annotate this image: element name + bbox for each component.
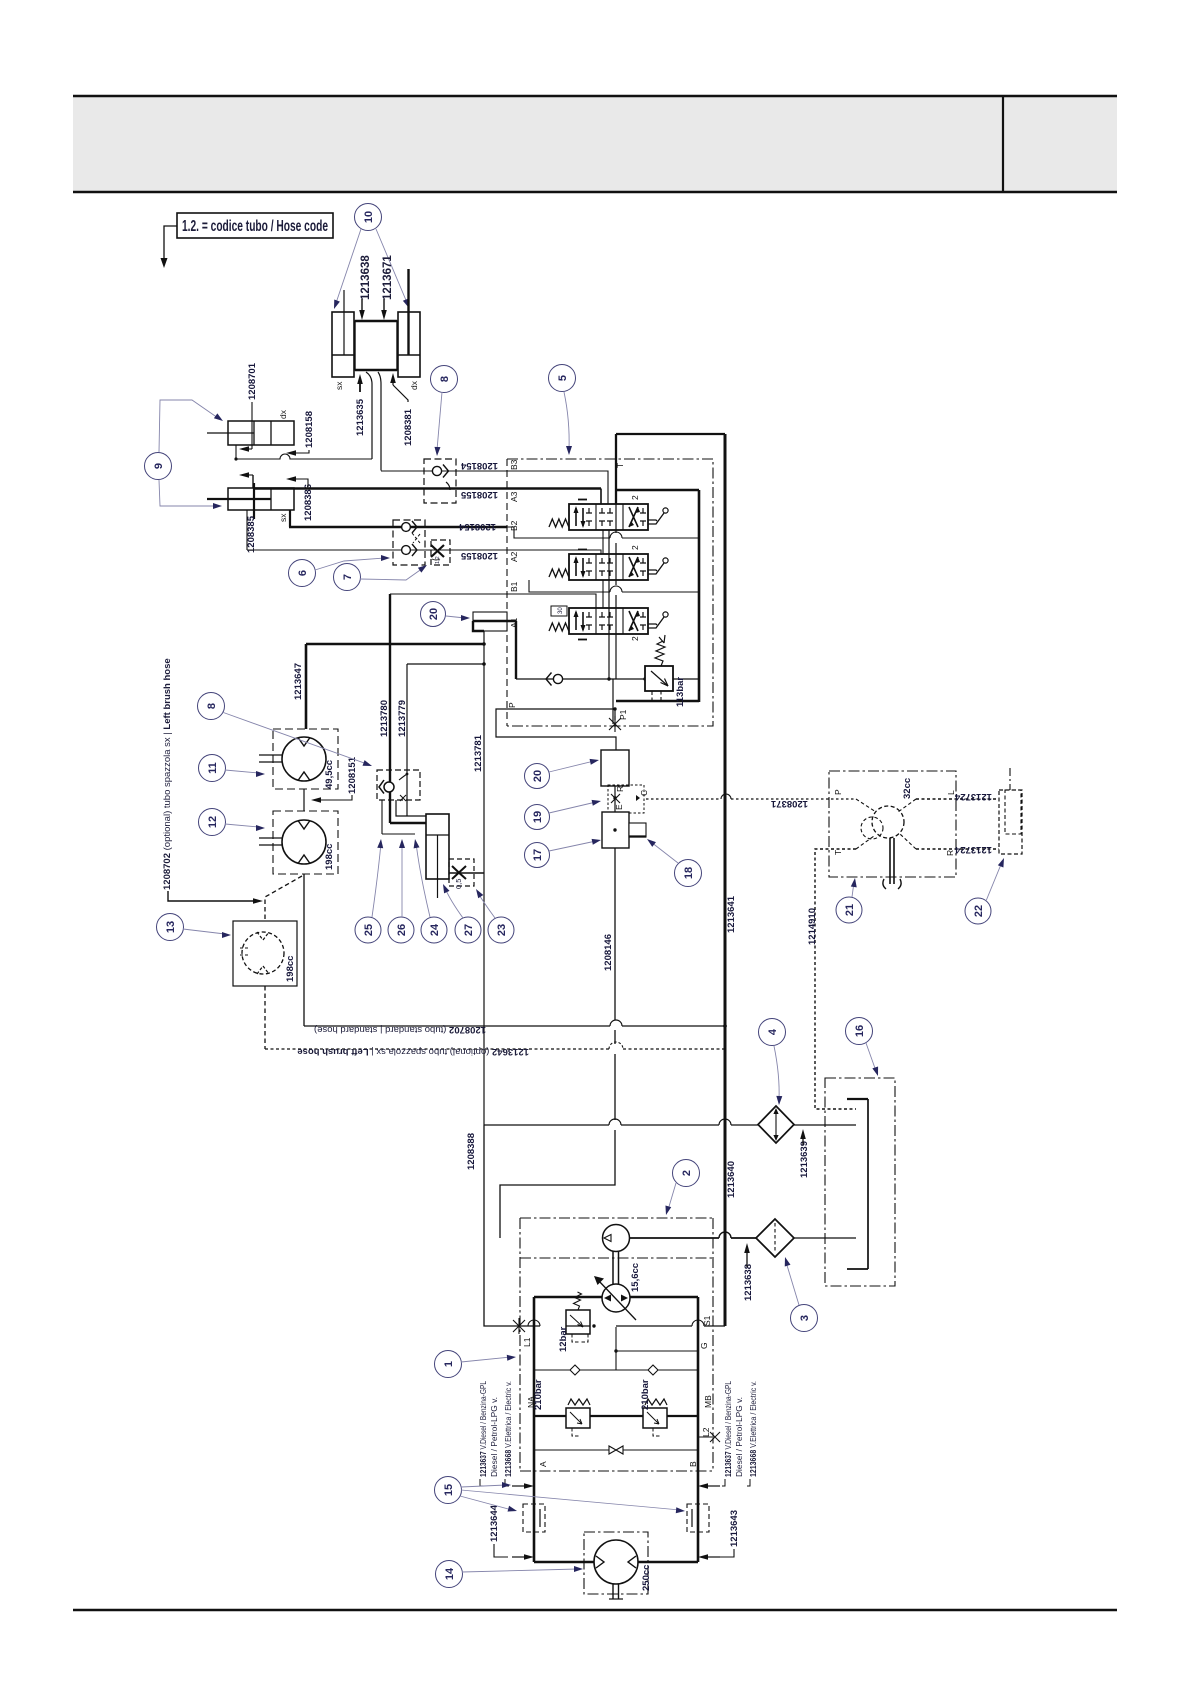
balloon 8	[431, 366, 458, 393]
relief valve RV1 113bar	[645, 635, 673, 701]
label L2 and star	[698, 1427, 720, 1442]
balloon 27	[455, 917, 481, 943]
leader 1208151	[311, 795, 352, 803]
wire hose B3 from manifold	[366, 372, 372, 459]
labels 1213637 1213668 right	[722, 1381, 758, 1486]
optional hose dotted y1049	[265, 1042, 725, 1049]
header band	[73, 96, 1117, 192]
leader balloon1	[461, 1354, 516, 1362]
svg-text:B3: B3	[509, 459, 519, 470]
relief 210bar right	[643, 1399, 667, 1436]
bottom rule	[73, 1609, 1117, 1612]
svg-text:12bar: 12bar	[558, 1326, 569, 1352]
orifice O7	[431, 540, 450, 565]
svg-text:1213637 V.Diesel / Benzina-GPL: 1213637 V.Diesel / Benzina-GPL	[479, 1381, 488, 1477]
L1 star mark	[513, 1318, 525, 1334]
brush manifold block 27	[382, 800, 449, 898]
wire 1213760 thick vertical	[390, 594, 426, 823]
leader balloon9 lower	[159, 480, 222, 509]
svg-text:32cc: 32cc	[902, 778, 913, 799]
suction line y1238	[630, 1232, 856, 1238]
balloon 9	[145, 453, 172, 480]
label C solenoid	[636, 790, 649, 801]
leader balloon26	[399, 839, 405, 917]
balloon 21	[836, 897, 862, 923]
solenoid assembly top box	[601, 750, 629, 812]
svg-text:B1: B1	[509, 581, 519, 592]
balloon 23	[488, 917, 514, 943]
inter-valve wire 1	[507, 527, 699, 538]
leader balloon23	[473, 887, 495, 918]
svg-text:1213638: 1213638	[743, 1264, 754, 1301]
svg-text:L1: L1	[522, 1337, 532, 1347]
wire left cylinders to valve y459	[234, 445, 372, 461]
balloon 14	[436, 1561, 463, 1588]
svg-text:2: 2	[630, 545, 640, 550]
cylinder sx (left pair lower)	[207, 483, 294, 519]
leader balloon4	[774, 1046, 782, 1105]
motor 21 boundary	[829, 771, 956, 877]
label 1213638 arrow	[359, 299, 365, 320]
cylinder sx (3rd brush lift, top left)	[332, 290, 354, 377]
leader balloon3	[782, 1256, 799, 1305]
svg-text:19: 19	[532, 811, 544, 823]
manifold between top cylinders	[355, 321, 397, 370]
svg-text:17: 17	[532, 849, 544, 861]
svg-text:1208155: 1208155	[460, 550, 498, 561]
svg-text:15,6cc: 15,6cc	[630, 1263, 641, 1292]
svg-text:1208702 (tubo standard | stand: 1208702 (tubo standard | standard hose)	[314, 1024, 486, 1035]
balloon 2	[673, 1160, 700, 1187]
leader balloon24	[412, 838, 430, 917]
leader balloon15 b	[460, 1496, 518, 1514]
P trunk	[609, 530, 613, 724]
svg-text:1213724: 1213724	[954, 844, 992, 855]
svg-text:1213781: 1213781	[473, 734, 484, 772]
leader 1208386	[286, 476, 308, 487]
leader balloon2	[663, 1183, 676, 1216]
pump B port arrows	[698, 1483, 720, 1560]
check valve CV8b (brush)	[377, 770, 420, 801]
filter 4	[758, 1106, 794, 1143]
leader 1213639	[800, 1129, 806, 1145]
pump shaft	[613, 1252, 619, 1286]
leader balloon10 to dx cylinder	[376, 229, 412, 309]
svg-text:1.2. = codice tubo / Hose code: 1.2. = codice tubo / Hose code	[182, 218, 328, 235]
valve V3 (section 3)	[549, 608, 668, 634]
svg-text:1208154: 1208154	[460, 460, 498, 471]
balloon 12	[199, 809, 226, 836]
hose code legend box	[177, 213, 333, 238]
leader balloon11	[225, 770, 265, 777]
svg-text:20: 20	[532, 770, 544, 782]
balloon 11	[199, 755, 226, 782]
balloon 17	[525, 843, 550, 868]
balloon 5	[549, 365, 576, 392]
leader balloon15 c long	[461, 1490, 685, 1514]
svg-text:25: 25	[363, 924, 375, 936]
LS drain to cooler line y1125	[484, 1119, 856, 1125]
svg-text:1213638: 1213638	[360, 255, 372, 300]
cylinder dx (left pair upper)	[207, 421, 294, 445]
check valve in block	[546, 673, 563, 686]
svg-text:dx: dx	[409, 380, 419, 390]
svg-text:1213780: 1213780	[379, 700, 390, 737]
svg-text:L2: L2	[701, 1427, 711, 1437]
leader balloon20b	[549, 757, 600, 772]
leader balloon27	[440, 883, 463, 918]
svg-text:1208702 (optional) tubo spazzo: 1208702 (optional) tubo spazzola sx | Le…	[162, 658, 173, 890]
wire A2 thin	[247, 510, 507, 550]
optional hose below M13	[264, 986, 266, 1049]
svg-text:A2: A2	[509, 551, 519, 562]
label 1213635 arrow	[357, 374, 363, 392]
wire A2 into V2	[507, 550, 601, 554]
dotted return line motor21	[815, 849, 856, 1109]
svg-text:Diesel / Petrol-LPG v.: Diesel / Petrol-LPG v.	[490, 1397, 499, 1477]
svg-text:113bar: 113bar	[675, 677, 686, 707]
labels 1213637 1213668 left	[479, 1381, 513, 1486]
balloon 20a	[421, 602, 446, 627]
leader 1208701	[239, 402, 252, 452]
svg-text:10: 10	[363, 211, 375, 223]
charge pump circle	[603, 1225, 630, 1252]
dotted lines motor21 to connector22	[916, 799, 999, 849]
svg-text:L: L	[946, 790, 956, 795]
svg-text:7: 7	[342, 574, 354, 580]
label 1213671 arrow	[381, 299, 387, 320]
leader balloon7 to orifice	[360, 563, 429, 580]
balloon 7	[334, 564, 361, 591]
svg-text:198cc: 198cc	[324, 844, 335, 870]
tank symbol	[847, 1099, 868, 1269]
svg-text:T: T	[833, 850, 843, 855]
svg-text:1208381: 1208381	[403, 408, 414, 446]
svg-text:2: 2	[630, 636, 640, 641]
A1 component box (balloon 20a)	[473, 612, 507, 631]
svg-text:1208388: 1208388	[466, 1133, 477, 1170]
svg-text:dx: dx	[278, 409, 288, 419]
leader balloon13	[183, 929, 231, 938]
motor 21 ports labels	[833, 789, 956, 856]
wire 1213779 vertical	[407, 662, 486, 816]
wire hose A3 from manifold	[378, 372, 381, 471]
solenoid side box 18	[629, 823, 646, 837]
balloon 16	[846, 1018, 873, 1045]
svg-text:B: B	[688, 1461, 698, 1467]
optional motor M13 box	[233, 921, 297, 986]
svg-text:P: P	[507, 702, 517, 708]
filter 3	[756, 1219, 794, 1257]
svg-text:Diesel / Petrol-LPG v.: Diesel / Petrol-LPG v.	[735, 1397, 744, 1477]
svg-text:1213642 (optional) tubo spazzo: 1213642 (optional) tubo spazzola sx | Le…	[297, 1046, 529, 1057]
svg-text:1213668 V.Elettrica / Electric: 1213668 V.Elettrica / Electric v.	[504, 1381, 513, 1477]
valve V2 (section 2)	[549, 554, 668, 580]
svg-text:2: 2	[630, 495, 640, 500]
leader balloon21	[851, 878, 858, 897]
svg-text:9: 9	[153, 463, 165, 469]
flange 15 left	[523, 1504, 545, 1532]
svg-text:A3: A3	[509, 491, 519, 502]
balloon 20b	[525, 764, 550, 789]
svg-text:1214910: 1214910	[807, 908, 818, 945]
svg-text:26: 26	[396, 924, 408, 936]
svg-text:5: 5	[557, 375, 569, 381]
valve V1 (section 1)	[549, 504, 668, 530]
svg-text:1213779: 1213779	[397, 700, 408, 737]
wire B1 external	[390, 593, 507, 595]
svg-text:1213639: 1213639	[799, 1141, 810, 1178]
P1 star mark	[609, 716, 621, 732]
svg-text:12: 12	[207, 816, 219, 828]
svg-text:6: 6	[297, 570, 309, 576]
svg-text:14: 14	[444, 1567, 456, 1580]
svg-text:8: 8	[439, 376, 451, 382]
svg-text:2: 2	[681, 1170, 693, 1176]
svg-text:sx: sx	[278, 513, 288, 522]
leader 1208158	[286, 450, 309, 456]
svg-text:1208701: 1208701	[247, 362, 258, 400]
balloon 26	[388, 917, 414, 943]
svg-text:1213641: 1213641	[726, 895, 737, 933]
svg-text:1213668 V.Elettrica / Electric: 1213668 V.Elettrica / Electric v.	[749, 1381, 758, 1477]
brush motor M12 198cc	[259, 811, 338, 874]
flange 15 right	[687, 1504, 709, 1532]
inter-valve wire 2	[529, 580, 699, 592]
svg-text:R: R	[615, 786, 625, 792]
svg-text:30: 30	[558, 607, 564, 614]
leader balloon16	[866, 1043, 881, 1077]
wire between motors	[303, 789, 305, 811]
solenoid assembly dotted section	[608, 785, 644, 813]
leader 1208702 optional	[168, 891, 263, 904]
valve block 5 boundary	[507, 459, 713, 726]
leader balloon20a	[446, 615, 470, 621]
svg-text:P: P	[833, 789, 843, 795]
T line main vertical 1213641	[724, 434, 727, 1326]
balloon 22	[965, 898, 991, 924]
case drain vertical to L1	[484, 1125, 519, 1326]
balloon 6	[289, 560, 316, 587]
P supply loop	[496, 707, 617, 750]
G line	[614, 1327, 698, 1370]
svg-text:18: 18	[683, 867, 695, 879]
svg-text:13: 13	[165, 921, 177, 933]
svg-text:1208151: 1208151	[347, 756, 358, 794]
svg-text:22: 22	[973, 905, 985, 917]
svg-text:MB: MB	[703, 1395, 713, 1408]
svg-text:E: E	[614, 804, 624, 810]
balloon 3	[791, 1305, 818, 1332]
leader balloon10 to sx cylinder	[331, 229, 361, 310]
wire A1 relief line	[516, 677, 699, 680]
wire B2 thick	[289, 510, 507, 527]
leader 1213638 suction	[744, 1243, 750, 1267]
balloon 24	[421, 917, 447, 943]
wire brush supply thick y644	[306, 642, 486, 729]
balloon 13	[157, 914, 184, 941]
svg-text:20: 20	[428, 608, 440, 620]
variable pump circle 15,6cc	[594, 1276, 636, 1320]
svg-text:1213635: 1213635	[355, 398, 366, 436]
valve V3 position labels	[578, 636, 640, 641]
balloon 1	[435, 1351, 462, 1378]
check valve line in pump	[534, 1365, 698, 1375]
svg-text:23: 23	[496, 924, 508, 936]
leader balloon18	[645, 837, 678, 863]
leader balloon22	[986, 857, 1007, 901]
T return loop top	[616, 434, 725, 504]
tank 16 boundary	[825, 1078, 895, 1286]
label 1208381 leader	[390, 373, 408, 402]
svg-text:1213637 V.Diesel / Benzina-GPL: 1213637 V.Diesel / Benzina-GPL	[724, 1381, 733, 1477]
svg-text:198cc: 198cc	[285, 956, 296, 982]
wire A3 thick	[253, 475, 601, 489]
pump unit 2 boundary	[520, 1218, 713, 1471]
svg-text:R: R	[945, 850, 955, 856]
balloon 4	[759, 1019, 786, 1046]
balloon 18	[675, 860, 702, 887]
svg-text:1208154: 1208154	[458, 521, 496, 532]
svg-text:1213643: 1213643	[729, 1510, 740, 1547]
balloon 10	[355, 204, 382, 231]
leader balloon17	[549, 837, 602, 851]
brush motor M11 49,5cc	[259, 729, 338, 789]
leader balloon19	[549, 798, 602, 813]
wire A3 right branch thick	[616, 490, 699, 702]
svg-text:1213647: 1213647	[293, 663, 304, 700]
svg-text:C: C	[639, 790, 649, 796]
svg-text:1213671: 1213671	[382, 255, 394, 300]
svg-text:1213644: 1213644	[489, 1504, 500, 1542]
svg-text:1213724: 1213724	[954, 791, 992, 802]
svg-text:G: G	[699, 1342, 709, 1349]
dotted pilot line to P motor21	[646, 794, 856, 799]
label 1213644	[489, 1504, 508, 1557]
leader balloon6 to CV6	[315, 555, 390, 570]
svg-text:210bar: 210bar	[640, 1379, 651, 1410]
svg-text:A1: A1	[509, 617, 519, 628]
svg-text:16: 16	[854, 1025, 866, 1037]
svg-text:15: 15	[443, 1484, 455, 1496]
wire LS vertical 1213781	[483, 631, 485, 1125]
valve V1 position labels	[578, 495, 640, 500]
motor 21 hydraulic motor 32cc	[856, 799, 916, 849]
legend leader arrow	[161, 226, 178, 268]
svg-text:1208371: 1208371	[770, 798, 808, 809]
svg-text:1208155: 1208155	[460, 489, 498, 500]
wire B3 thin	[381, 470, 507, 472]
svg-text:1208158: 1208158	[304, 411, 315, 448]
wire B3 into V1	[507, 471, 608, 504]
balloon 19	[525, 805, 550, 830]
relief 210bar left	[566, 1399, 590, 1436]
svg-text:1,2: 1,2	[435, 556, 441, 564]
leader balloon5 to block	[564, 392, 572, 455]
leader balloon8 to CV8b	[222, 712, 373, 769]
leader balloon25	[372, 839, 384, 917]
svg-text:1213640: 1213640	[726, 1161, 737, 1198]
label 1213643	[720, 1510, 740, 1557]
charge relief 12bar	[566, 1292, 590, 1342]
leader balloon9 upper	[159, 400, 225, 452]
wire A3 into V1	[600, 489, 602, 505]
S1 return into pump	[519, 1320, 725, 1328]
fan motor 14 250cc	[584, 1532, 648, 1599]
supply line 1208146	[500, 848, 615, 1238]
svg-text:1208385: 1208385	[246, 515, 257, 553]
valve V3 pilot box 30	[551, 606, 567, 616]
leader balloon14	[462, 1566, 583, 1572]
svg-text:0,5: 0,5	[454, 879, 463, 889]
connector 22	[999, 768, 1022, 854]
svg-text:49,5cc: 49,5cc	[324, 760, 335, 789]
svg-text:210bar: 210bar	[533, 1379, 544, 1410]
svg-text:3: 3	[799, 1315, 811, 1321]
wire carryover V1-V3	[602, 530, 604, 608]
svg-text:P1: P1	[618, 709, 628, 720]
check valve CV8 (pilot operated, boom)	[424, 459, 456, 503]
svg-text:1208146: 1208146	[603, 934, 614, 971]
wire standard hose from M12	[303, 874, 305, 1026]
svg-text:8: 8	[206, 703, 218, 709]
svg-text:T: T	[615, 463, 625, 468]
balloon 25	[355, 917, 381, 943]
svg-text:S1: S1	[702, 1315, 712, 1326]
svg-text:4: 4	[767, 1028, 779, 1035]
leader balloon15 a	[461, 1482, 511, 1488]
svg-text:21: 21	[844, 904, 856, 916]
shuttle line	[534, 1446, 698, 1454]
double check valve CV6	[393, 520, 425, 565]
cylinder dx (3rd brush lift, top right)	[398, 269, 420, 377]
wire B1 into V3	[507, 594, 596, 608]
wire A1 thick	[473, 621, 516, 679]
svg-text:27: 27	[463, 924, 475, 936]
pump internal bus thick	[534, 1415, 698, 1417]
leader balloon8 to CV8	[434, 392, 442, 456]
leader balloon12	[225, 824, 265, 831]
svg-text:sx: sx	[334, 381, 344, 390]
svg-text:1: 1	[443, 1361, 455, 1367]
pump block body	[534, 1297, 698, 1562]
balloon 15	[435, 1477, 462, 1504]
optional hose dashed from M12	[265, 876, 302, 985]
port arrow left-pair mid1	[239, 472, 253, 478]
pump A port arrows	[512, 1483, 534, 1560]
standard hose line y1025	[304, 1020, 727, 1028]
svg-text:250cc: 250cc	[641, 1565, 652, 1591]
svg-text:24: 24	[429, 923, 441, 936]
motor 21 shaft	[883, 838, 901, 889]
svg-text:A: A	[538, 1461, 548, 1467]
valve V2 position labels	[578, 545, 640, 550]
orifice O23	[449, 859, 484, 886]
svg-text:11: 11	[207, 762, 219, 774]
solenoid assembly lower box	[602, 812, 629, 848]
T trunk through valves	[564, 504, 621, 679]
balloon 8b	[198, 693, 225, 720]
